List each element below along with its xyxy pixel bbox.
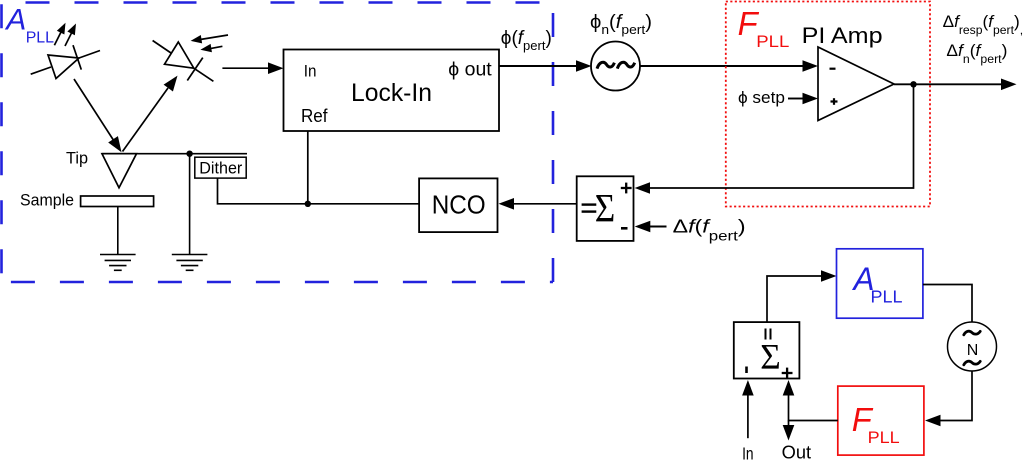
laser beam to tip [74, 79, 114, 141]
reflected beam to photodiode [123, 88, 169, 152]
svg-text:Σ: Σ [595, 186, 616, 231]
wire S1 out to NCO [513, 203, 577, 205]
photodiode incoming light arrow 1 [201, 35, 228, 39]
plus mark S2 [782, 372, 793, 374]
minus input mark [830, 68, 836, 70]
svg-text:In: In [742, 444, 754, 460]
photodiode D2 [153, 41, 214, 82]
photodiode incoming light arrow 2 [211, 46, 222, 48]
Lock-In box [284, 50, 500, 132]
wire Out arrow [788, 421, 790, 429]
svg-text:PLL: PLL [26, 30, 54, 47]
equals mark S1 [582, 203, 597, 205]
wire phi setp to plus input [788, 98, 803, 100]
wire Lock-In Ref down [307, 131, 309, 204]
minus mark S2 [745, 367, 748, 374]
noise source tildes [597, 62, 635, 68]
node output junction [910, 81, 916, 87]
wire F_PLL to S2 plus [789, 394, 838, 421]
op-amp PI triangle [818, 47, 894, 121]
wire photodiode to Lock-In In [222, 67, 269, 69]
wire In arrow into S2 minus [747, 394, 749, 438]
rotated equals mark S2 [765, 329, 767, 340]
svg-text:PLL: PLL [871, 287, 903, 307]
svg-text:ϕ(fpert): ϕ(fpert) [501, 28, 552, 53]
minus mark S1 [621, 227, 628, 230]
blue dashed box A_PLL boundary [2, 3, 554, 283]
plus mark S1 [621, 187, 632, 189]
wire A_PLL to N source [923, 285, 972, 323]
svg-text:PLL: PLL [756, 32, 789, 51]
plus input mark [831, 100, 838, 102]
svg-text:A: A [4, 4, 26, 37]
summing block S1 [577, 176, 634, 241]
wire tip to dither [102, 153, 247, 155]
svg-text:Sample: Sample [20, 192, 74, 210]
wire feedback from output to sum [649, 84, 914, 188]
svg-text:Ref: Ref [301, 106, 328, 126]
F_PLL box (red) [838, 386, 924, 455]
summing block S2 (bottom diagram) [734, 322, 800, 378]
svg-text:Tip: Tip [66, 149, 88, 168]
laser emission arrow 2 [65, 29, 74, 46]
svg-text:Dither: Dither [199, 159, 242, 178]
wire N source to F_PLL [940, 371, 973, 421]
svg-text:Out: Out [782, 442, 812, 460]
node junction ref/dither [305, 201, 311, 207]
svg-text:NCO: NCO [432, 190, 486, 220]
wire delta-f into S1 minus [650, 226, 667, 228]
node junction on tip wire [186, 151, 192, 157]
wire S2 to A_PLL [767, 276, 822, 322]
wire Lock-In out to noise source [499, 65, 577, 67]
svg-text:PI Amp: PI Amp [802, 23, 883, 48]
ground (tip wire) [172, 154, 208, 271]
wire PI amp output [894, 83, 1002, 85]
svg-text:Σ: Σ [760, 337, 781, 377]
wire noise source to PI amp [640, 65, 803, 67]
N oscillator circle [948, 322, 997, 371]
laser emission arrow 1 [54, 28, 63, 45]
tip cantilever triangle [102, 154, 137, 188]
ground (sample) [100, 207, 136, 271]
A_PLL box (blue) [837, 249, 923, 318]
laser diode D1 [31, 45, 100, 78]
Dither box [195, 157, 246, 178]
svg-text:Lock-In: Lock-In [351, 79, 432, 107]
noise source circle [591, 42, 640, 91]
svg-text:PLL: PLL [868, 428, 900, 447]
svg-text:ϕn(fpert): ϕn(fpert) [590, 12, 652, 37]
svg-text:ϕ out: ϕ out [448, 60, 492, 81]
red dotted box F_PLL boundary [726, 2, 930, 207]
wire dither to NCO [218, 178, 420, 204]
svg-text:Δf(fpert): Δf(fpert) [673, 216, 746, 244]
sample bar [81, 196, 154, 207]
svg-text:Δfn(fpert): Δfn(fpert) [946, 41, 1007, 66]
NCO box [419, 178, 497, 232]
svg-text:ϕ setp: ϕ setp [738, 88, 785, 107]
N circle tildes [964, 331, 980, 365]
svg-text:In: In [304, 62, 317, 81]
svg-text:Δfresp(fpert),: Δfresp(fpert), [943, 12, 1024, 37]
svg-text:N: N [967, 342, 979, 359]
